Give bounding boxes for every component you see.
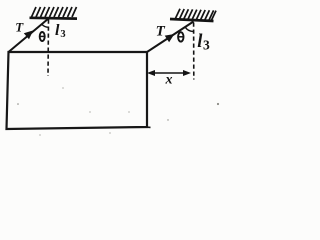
svg-text:T: T xyxy=(156,23,166,39)
svg-text:x: x xyxy=(165,73,173,88)
svg-text:3: 3 xyxy=(60,29,65,40)
svg-text:3: 3 xyxy=(203,37,210,52)
svg-text:T: T xyxy=(15,19,24,34)
svg-text:l: l xyxy=(55,22,60,39)
